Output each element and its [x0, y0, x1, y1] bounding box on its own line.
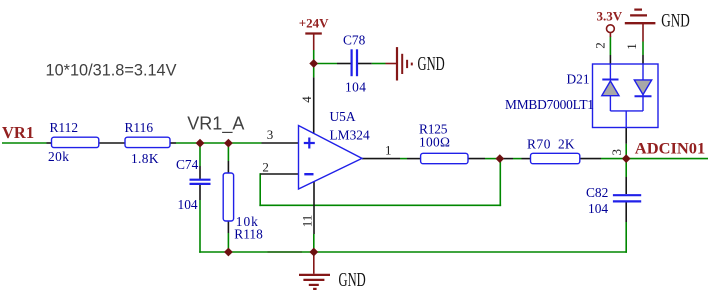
- svg-text:3: 3: [267, 127, 274, 142]
- svg-text:2: 2: [262, 160, 269, 175]
- svg-text:GND: GND: [339, 269, 366, 291]
- svg-text:3: 3: [609, 149, 624, 156]
- svg-text:1: 1: [385, 142, 392, 157]
- svg-text:U5A: U5A: [330, 109, 356, 124]
- svg-text:100Ω: 100Ω: [419, 135, 450, 150]
- svg-text:C74: C74: [176, 157, 199, 172]
- svg-text:20k: 20k: [48, 149, 69, 164]
- svg-text:D21: D21: [567, 72, 590, 87]
- svg-text:104: 104: [588, 201, 608, 216]
- svg-text:R118: R118: [234, 227, 263, 242]
- svg-text:C78: C78: [343, 33, 366, 48]
- svg-text:MMBD7000LT1: MMBD7000LT1: [505, 97, 594, 112]
- svg-text:GND: GND: [661, 10, 690, 31]
- svg-text:R116: R116: [125, 120, 154, 135]
- svg-text:ADCIN01: ADCIN01: [635, 141, 706, 158]
- svg-text:2: 2: [593, 42, 608, 49]
- svg-text:1: 1: [624, 43, 639, 50]
- svg-text:2K: 2K: [558, 137, 575, 152]
- svg-text:C82: C82: [586, 185, 608, 200]
- svg-text:4: 4: [299, 96, 314, 103]
- svg-text:GND: GND: [418, 53, 445, 75]
- svg-text:R112: R112: [50, 120, 79, 135]
- svg-text:VR1_A: VR1_A: [187, 113, 244, 134]
- svg-text:104: 104: [178, 197, 198, 212]
- svg-text:VR1: VR1: [2, 123, 34, 142]
- svg-text:R70: R70: [527, 137, 551, 152]
- svg-text:11: 11: [300, 215, 315, 228]
- svg-text:3.3V: 3.3V: [597, 9, 623, 24]
- svg-text:10*10/31.8=3.14V: 10*10/31.8=3.14V: [46, 60, 178, 79]
- svg-text:LM324: LM324: [330, 128, 370, 143]
- svg-text:104: 104: [345, 80, 366, 95]
- svg-text:+24V: +24V: [299, 16, 329, 31]
- svg-text:1.8K: 1.8K: [131, 151, 159, 166]
